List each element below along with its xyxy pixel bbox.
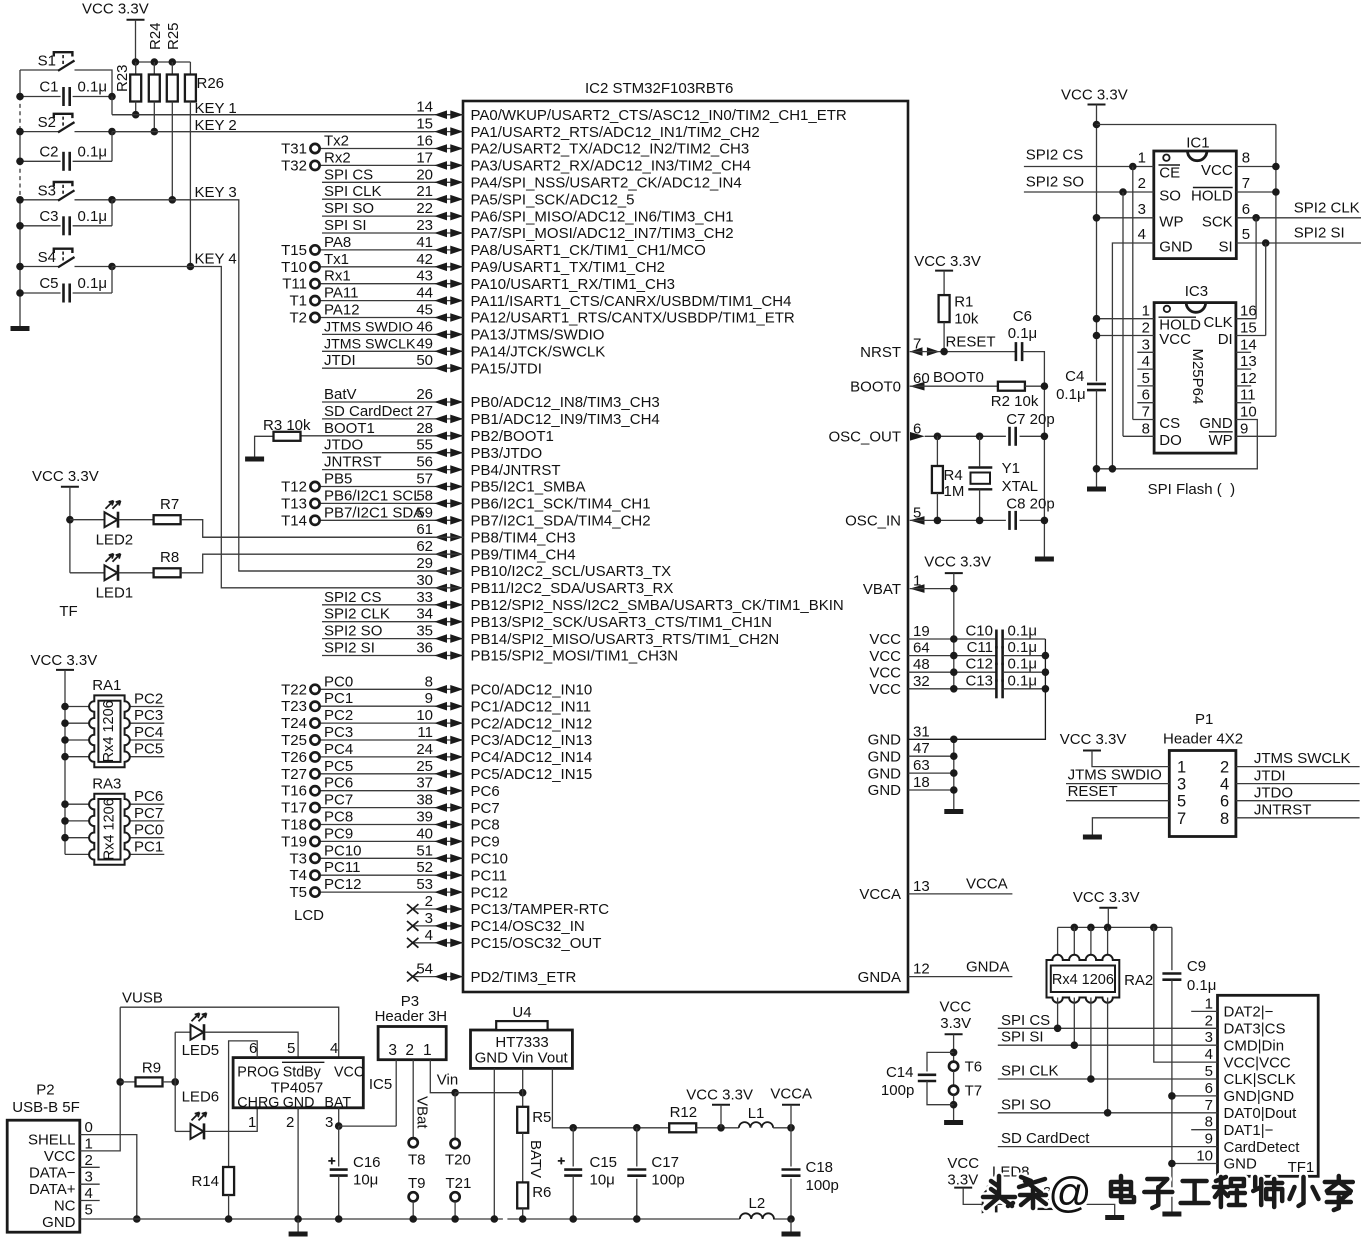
wire: [320, 486, 464, 488]
wire P2 DATA+ stub: [80, 1183, 100, 1185]
wire cap to gnd rail: [1003, 655, 1046, 657]
wire LED2 to R7: [119, 519, 154, 521]
svg-text:SPI2 CS: SPI2 CS: [324, 589, 382, 606]
svg-text:8: 8: [1220, 810, 1229, 828]
wire IC1 SCK to SPI2 CLK: [1236, 217, 1361, 219]
resistor R4: [932, 466, 943, 493]
svg-text:PA8: PA8: [324, 234, 351, 251]
svg-text:31: 31: [913, 723, 930, 740]
svg-text:IC1: IC1: [1186, 135, 1209, 152]
LED LED1: [105, 554, 121, 581]
svg-text:C6: C6: [1013, 308, 1032, 325]
capacitor C9: [1162, 974, 1181, 980]
ground LED8: [1105, 1215, 1124, 1220]
wire rail to RA1: [65, 756, 94, 758]
wire SPI2 SO to IC1 SO: [1024, 191, 1154, 193]
LED LED8: [983, 1185, 999, 1212]
junction rail: [61, 703, 69, 711]
svg-text:R6: R6: [532, 1184, 551, 1201]
svg-text:VCC: VCC: [44, 1148, 76, 1165]
svg-text:SPI2 SO: SPI2 SO: [1026, 174, 1084, 191]
svg-text:SPI SO: SPI SO: [324, 200, 374, 217]
capacitor C3: [64, 216, 70, 235]
junction VCC bus: [950, 685, 958, 693]
wire IC3 WP to VCC: [1236, 435, 1276, 437]
junction: [169, 58, 177, 66]
junction rail: [1150, 924, 1158, 932]
wire: [322, 215, 463, 217]
svg-text:2: 2: [85, 1152, 93, 1169]
junction rail: [16, 263, 24, 271]
wire Vin to U4: [455, 1092, 523, 1094]
svg-text:GND Vin Vout: GND Vin Vout: [475, 1050, 569, 1067]
svg-text:PB10/I2C2_SCL/USART3_TX: PB10/I2C2_SCL/USART3_TX: [471, 563, 672, 580]
wire IC3 nc stub: [1236, 385, 1251, 387]
wire T6 to T7: [953, 1071, 955, 1085]
wire to LED5: [175, 1031, 190, 1033]
wire R26 top lead: [189, 62, 191, 75]
svg-text:VCC: VCC: [1201, 162, 1233, 179]
svg-text:PC1: PC1: [324, 690, 353, 707]
svg-text:PC1: PC1: [134, 838, 163, 855]
wire T9 to ground: [412, 1201, 414, 1219]
resistor R9: [136, 1077, 163, 1086]
svg-text:8: 8: [1142, 420, 1150, 437]
svg-text:4: 4: [1138, 226, 1146, 243]
svg-text:DAT2|−: DAT2|−: [1224, 1004, 1274, 1021]
wire R8 to PB9: [181, 554, 464, 573]
junction rail: [16, 196, 24, 204]
wire ground bus to node: [773, 1218, 791, 1220]
wire key rail dashed: [19, 161, 21, 200]
wire: [320, 756, 464, 758]
svg-text:0.1μ: 0.1μ: [1008, 656, 1038, 673]
svg-text:DAT3|CS: DAT3|CS: [1224, 1021, 1286, 1038]
svg-text:C8 20p: C8 20p: [1006, 496, 1054, 513]
svg-text:CMD|Din: CMD|Din: [1224, 1037, 1285, 1054]
svg-text:T11: T11: [282, 276, 307, 293]
wire VCC to IC3 HOLD: [1097, 318, 1155, 320]
wire: [320, 283, 464, 285]
VCC 3.3V supply: [712, 1104, 730, 1106]
wire P2 NC stub: [80, 1200, 100, 1202]
junction: [151, 58, 159, 66]
svg-text:LED2: LED2: [96, 532, 134, 549]
LED LED6: [191, 1112, 207, 1139]
wire RA2 top lead: [1057, 927, 1059, 960]
svg-text:JTMS SWCLK: JTMS SWCLK: [1254, 750, 1351, 767]
svg-text:13: 13: [913, 878, 930, 895]
svg-text:R7: R7: [160, 496, 179, 513]
svg-text:PC3/ADC12_IN13: PC3/ADC12_IN13: [471, 732, 593, 749]
junction rail: [16, 289, 24, 297]
svg-text:1: 1: [1142, 303, 1150, 320]
svg-text:6: 6: [1205, 1080, 1213, 1097]
svg-text:8: 8: [1242, 150, 1250, 167]
test point T8: [409, 1138, 418, 1147]
wire TF1 pin1 stub: [1191, 1010, 1217, 1012]
svg-text:SPI SI: SPI SI: [1001, 1029, 1044, 1046]
wire R26 to KEY4: [189, 102, 191, 267]
connector TF1 SD card body: [1218, 995, 1319, 1176]
svg-text:3: 3: [1205, 1029, 1213, 1046]
svg-text:T32: T32: [281, 157, 307, 174]
junction: [1168, 1092, 1176, 1100]
wire: [320, 790, 464, 792]
junction: [519, 1215, 527, 1223]
wire LED bracket vertical: [174, 1032, 176, 1131]
wire: [320, 148, 464, 150]
wire rail to RA3: [65, 803, 94, 805]
wire VCC bus vertical: [953, 573, 955, 689]
svg-text:PC1/ADC12_IN11: PC1/ADC12_IN11: [471, 698, 592, 715]
svg-text:10μ: 10μ: [590, 1172, 615, 1189]
no-connect X: [407, 921, 418, 931]
wire GNDA stub: [908, 976, 1012, 978]
svg-text:VCC: VCC: [869, 664, 901, 681]
svg-text:0.1μ: 0.1μ: [1008, 325, 1037, 342]
svg-text:SO: SO: [1159, 188, 1181, 205]
svg-text:RA2: RA2: [1124, 972, 1153, 989]
junction C15: [569, 1124, 577, 1132]
svg-text:PB11/I2C2_SDA/USART3_RX: PB11/I2C2_SDA/USART3_RX: [471, 580, 674, 597]
wire RA2 top lead: [1107, 927, 1109, 960]
wire to LED6: [175, 1130, 190, 1132]
wire R4 top lead: [936, 436, 938, 466]
wire: [322, 621, 463, 623]
wire rail to C5: [20, 292, 61, 294]
connector P2 USB-B 5F body: [7, 1120, 80, 1232]
svg-text:3.3V: 3.3V: [947, 1172, 978, 1189]
svg-text:100p: 100p: [881, 1082, 914, 1099]
svg-text:4: 4: [85, 1185, 93, 1202]
junction S2/C2 node: [108, 128, 116, 136]
capacitor C14: [918, 1075, 936, 1081]
svg-text:0.1μ: 0.1μ: [1008, 639, 1038, 656]
wire KEY4 to PB11: [112, 267, 463, 588]
svg-text:PC8: PC8: [324, 809, 353, 826]
test point T7: [949, 1086, 958, 1095]
svg-text:VCC 3.3V: VCC 3.3V: [32, 468, 99, 485]
wire P3 pin2 to T8: [412, 1060, 414, 1138]
svg-text:GND: GND: [42, 1214, 76, 1231]
wire cap to gnd rail: [1003, 688, 1046, 690]
svg-text:BOOT1: BOOT1: [324, 420, 375, 437]
svg-text:PC11: PC11: [324, 859, 360, 876]
svg-text:TP4057: TP4057: [271, 1080, 324, 1097]
wire: [322, 350, 463, 352]
svg-text:GND: GND: [868, 748, 902, 765]
svg-text:PA11/ISART1_CTS/CANRX/USBDM/TI: PA11/ISART1_CTS/CANRX/USBDM/TIM1_CH4: [471, 293, 792, 310]
svg-text:LED1: LED1: [96, 585, 134, 602]
svg-text:Vin: Vin: [437, 1072, 458, 1089]
capacitor C8: [1010, 511, 1016, 530]
svg-text:51: 51: [416, 842, 433, 859]
wire C16 to ground: [338, 1176, 340, 1219]
wire C4 to ground: [1096, 390, 1098, 486]
wire rail to S3: [20, 199, 59, 201]
wire C14 left bottom: [927, 1081, 954, 1105]
svg-text:50: 50: [416, 352, 433, 369]
svg-text:T27: T27: [281, 766, 307, 783]
svg-text:5: 5: [1205, 1063, 1213, 1080]
svg-text:PC0: PC0: [324, 673, 353, 690]
test point T18: [310, 820, 319, 829]
svg-text:NC: NC: [54, 1198, 76, 1215]
wire: [322, 333, 463, 335]
junction: [1272, 163, 1280, 171]
wire VCC stem: [1107, 908, 1109, 928]
svg-text:48: 48: [913, 656, 930, 673]
junction Y1 bottom: [976, 517, 984, 525]
wire KEY2 to PA1: [112, 131, 434, 133]
wire U4 Vin lead: [522, 1068, 524, 1092]
svg-text:2: 2: [1142, 320, 1150, 337]
wire rail to S2: [20, 131, 59, 133]
svg-text:L2: L2: [749, 1195, 766, 1212]
svg-text:OSC_IN: OSC_IN: [845, 513, 901, 530]
wire C3 right: [73, 225, 112, 227]
svg-text:PC5: PC5: [324, 758, 353, 775]
wire ground to TF1 pin6: [1172, 1095, 1218, 1097]
svg-text:55: 55: [416, 437, 433, 454]
wire: [413, 976, 463, 978]
svg-text:T24: T24: [281, 715, 307, 732]
svg-text:LED5: LED5: [182, 1042, 220, 1059]
svg-text:DAT0|Dout: DAT0|Dout: [1224, 1105, 1298, 1122]
svg-text:32: 32: [913, 673, 930, 690]
wire L1 to VCCA: [773, 1127, 791, 1129]
svg-text:3: 3: [1142, 336, 1150, 353]
svg-text:WP: WP: [1159, 213, 1183, 230]
svg-text:DO: DO: [1159, 432, 1182, 449]
U4 HT7333 body: [471, 1030, 573, 1068]
svg-text:SPI CLK: SPI CLK: [1001, 1063, 1059, 1080]
junction: [294, 1215, 302, 1223]
junction RA2 to SPI line: [1104, 1109, 1112, 1117]
svg-text:5: 5: [1142, 370, 1150, 387]
ground main bus: [289, 1232, 308, 1237]
wire BOOT0 to R2: [910, 385, 998, 387]
no-connect X: [407, 904, 418, 914]
svg-text:PC12: PC12: [324, 876, 362, 893]
svg-text:GND: GND: [868, 732, 902, 749]
svg-text:RESET: RESET: [1068, 783, 1118, 800]
wire SO to IC3 DO: [1123, 435, 1154, 437]
svg-text:SCK: SCK: [1202, 213, 1233, 230]
wire U4 GND to bus: [493, 1068, 495, 1219]
junction: [225, 1215, 233, 1223]
svg-text:OSC_OUT: OSC_OUT: [828, 429, 901, 446]
test point T5: [310, 888, 319, 897]
wire R3 to ground: [255, 436, 274, 456]
svg-text:T1: T1: [289, 293, 307, 310]
capacitor C13: [996, 679, 1002, 698]
wire decoupling ground rail: [908, 639, 1045, 739]
wire rail to C2: [20, 160, 61, 162]
svg-text:PC5: PC5: [134, 741, 163, 758]
wire RA2 top lead: [1073, 927, 1075, 960]
wire VCC pin row: [908, 671, 996, 673]
VCC 3.3V supply: [1099, 907, 1117, 909]
svg-text:SPI CS: SPI CS: [324, 166, 373, 183]
VCC 3.3V supply: [954, 1187, 972, 1189]
junction VCC node: [717, 1124, 725, 1132]
VCC 3.3V supply: [1083, 750, 1101, 752]
wire R12 to L1: [696, 1127, 739, 1129]
wire Vin to T20: [454, 1093, 456, 1139]
svg-text:57: 57: [416, 471, 433, 488]
svg-text:T3: T3: [289, 850, 307, 867]
svg-text:R23: R23: [114, 64, 131, 92]
test point T32: [310, 161, 319, 170]
wire: [322, 198, 463, 200]
svg-text:L1: L1: [748, 1105, 765, 1122]
wire C5 right: [73, 292, 112, 294]
junction C14 top: [950, 1049, 958, 1057]
svg-text:5: 5: [1242, 226, 1250, 243]
resistor array RA3: [89, 794, 130, 865]
wire SPI CLK to TF1: [998, 1078, 1218, 1080]
svg-text:PA13/JTMS/SWDIO: PA13/JTMS/SWDIO: [471, 327, 605, 344]
test point T15: [310, 245, 319, 254]
svg-text:PB6/I2C1 SCL: PB6/I2C1 SCL: [324, 487, 422, 504]
wire SI vertical: [1265, 243, 1267, 336]
svg-text:VCC 3.3V: VCC 3.3V: [924, 554, 991, 571]
wire IC3 nc stub: [1236, 368, 1251, 370]
svg-text:19: 19: [913, 623, 930, 640]
svg-text:Tx1: Tx1: [324, 251, 349, 268]
svg-text:IC3: IC3: [1185, 283, 1208, 300]
resistor array RA1: [89, 695, 130, 767]
test point T10: [310, 262, 319, 271]
svg-text:USB-B 5F: USB-B 5F: [12, 1099, 80, 1116]
svg-text:T17: T17: [281, 800, 307, 817]
junction Y1 top: [976, 433, 984, 441]
svg-text:0.1μ: 0.1μ: [78, 275, 108, 292]
svg-text:VCC 3.3V: VCC 3.3V: [82, 1, 149, 18]
IC1 SPI flash (8 pin) body: [1154, 151, 1237, 259]
svg-text:PC10: PC10: [471, 851, 509, 868]
wire C9/ground vertical: [1171, 980, 1173, 1212]
junction: [1042, 668, 1050, 676]
junction: [132, 58, 140, 66]
VCC 3.3V supply: [127, 19, 145, 21]
svg-text:40: 40: [416, 825, 433, 842]
svg-text:R9: R9: [142, 1060, 161, 1077]
junction C17: [633, 1124, 641, 1132]
svg-text:VCCA: VCCA: [859, 886, 901, 903]
svg-text:VCC 3.3V: VCC 3.3V: [1061, 87, 1128, 104]
svg-text:6: 6: [1242, 201, 1250, 218]
wire GND bus vertical: [953, 739, 955, 809]
wire to ground: [790, 1219, 792, 1232]
svg-text:LCD: LCD: [294, 907, 324, 924]
wire P2 VCC to VUSB: [80, 1007, 120, 1151]
junction rail: [16, 93, 24, 101]
svg-text:IC2 STM32F103RBT6: IC2 STM32F103RBT6: [585, 80, 733, 97]
svg-text:SPI2 SO: SPI2 SO: [324, 623, 382, 640]
wire RA1 PC5 stub: [125, 756, 165, 758]
wire C7 to rail: [1020, 435, 1045, 437]
svg-text:PA8/USART1_CK/TIM1_CH1/MCO: PA8/USART1_CK/TIM1_CH1/MCO: [471, 242, 706, 259]
svg-text:C11: C11: [967, 639, 993, 656]
svg-text:PA14/JTCK/SWCLK: PA14/JTCK/SWCLK: [471, 344, 606, 361]
capacitor C17: [627, 1170, 646, 1176]
svg-text:44: 44: [416, 285, 433, 302]
wire JTMS SWDIO to P1: [1066, 783, 1169, 785]
svg-text:C9: C9: [1187, 958, 1206, 975]
wire KEY3 to PB10: [112, 200, 463, 571]
wire IC1 VCC pin: [1236, 166, 1276, 168]
svg-text:2: 2: [1138, 175, 1146, 192]
wire R5 to R6: [522, 1133, 524, 1183]
svg-text:0: 0: [85, 1119, 93, 1136]
svg-text:SI: SI: [1219, 239, 1233, 256]
wire OSC_OUT: [925, 435, 1006, 437]
svg-text:20: 20: [416, 166, 433, 183]
svg-text:PC4/ADC12_IN14: PC4/ADC12_IN14: [471, 749, 593, 766]
wire U4 Vout: [552, 1068, 573, 1127]
svg-text:46: 46: [416, 318, 433, 335]
junction KEY3/R25: [169, 196, 177, 204]
svg-text:PC7: PC7: [134, 805, 163, 822]
wire C14 left top: [927, 1052, 954, 1071]
svg-text:R1: R1: [954, 294, 973, 311]
svg-text:VCCA: VCCA: [770, 1086, 812, 1103]
wire R4 bottom lead: [936, 493, 938, 520]
wire IC3 nc stub: [1236, 402, 1251, 404]
svg-text:3: 3: [85, 1169, 93, 1186]
svg-text:T15: T15: [281, 242, 307, 259]
svg-text:VCC: VCC: [940, 999, 972, 1016]
VCC 3.3V supply: [945, 572, 963, 574]
svg-text:2: 2: [405, 1042, 414, 1059]
junction LED2 feed: [66, 516, 74, 524]
svg-text:49: 49: [416, 335, 433, 352]
wire Vin to R5: [522, 1093, 524, 1107]
svg-text:37: 37: [416, 775, 433, 792]
svg-text:PB15/SPI2_MOSI/TIM1_CH3N: PB15/SPI2_MOSI/TIM1_CH3N: [471, 648, 679, 665]
svg-text:R4: R4: [944, 467, 963, 484]
svg-text:DATA+: DATA+: [29, 1181, 76, 1198]
wire S3 to KEY3: [75, 199, 113, 201]
svg-text:63: 63: [913, 757, 930, 774]
VCC 3.3V supply: [56, 669, 74, 671]
wire Y1 top lead: [979, 436, 981, 466]
wire T21 to ground: [454, 1201, 456, 1219]
wire VCC to TF1 pin4: [1154, 927, 1218, 1062]
svg-text:15: 15: [1240, 320, 1257, 337]
wire P1 pin6 JTDO: [1236, 800, 1360, 802]
test point T19: [310, 837, 319, 846]
wire IC3 nc stub: [1137, 351, 1154, 353]
wire P1 pin7 to ground: [1092, 818, 1169, 835]
wire R25 to KEY3: [171, 102, 173, 200]
VCC 3.3V supply: [935, 270, 953, 272]
svg-text:PC15/OSC32_OUT: PC15/OSC32_OUT: [471, 935, 602, 952]
capacitor C10: [996, 630, 1002, 649]
capacitor C16 (electrolytic): [330, 1170, 348, 1176]
svg-text:2: 2: [1205, 1012, 1213, 1029]
resistor R2: [998, 382, 1025, 391]
svg-text:NRST: NRST: [860, 344, 901, 361]
test point T23: [310, 702, 319, 711]
IC3 SPI flash M25P64 body: [1154, 303, 1236, 454]
wire BAT to P3 pin3: [339, 1125, 397, 1127]
svg-text:T7: T7: [965, 1083, 983, 1100]
svg-text:PA1/USART2_RTS/ADC12_IN1/TIM2_: PA1/USART2_RTS/ADC12_IN1/TIM2_CH2: [471, 124, 760, 141]
